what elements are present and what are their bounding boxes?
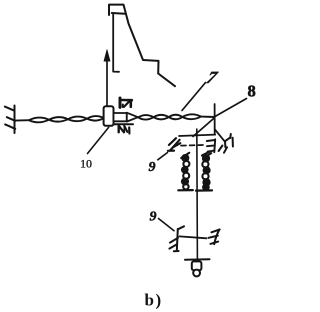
wall anchor (left) <box>5 106 15 134</box>
svg-text:8: 8 <box>248 81 256 100</box>
crossbar H1 <box>179 135 215 136</box>
bottom-left anchor <box>169 226 184 251</box>
socket fitting at bottom <box>185 259 210 276</box>
svg-text:b): b) <box>145 291 163 310</box>
rotated "2" mark below fitting <box>119 126 128 133</box>
hanger vertical V2 <box>196 129 199 259</box>
bar under fitting <box>114 123 133 125</box>
svg-text:10: 10 <box>80 157 92 171</box>
rope right segment (twisted) <box>138 114 214 119</box>
leader from 9 (upper) <box>158 153 168 160</box>
leader to label 7 <box>182 83 206 111</box>
svg-text:7: 7 <box>204 68 221 87</box>
strut D2 to upper-right anchor <box>215 129 225 141</box>
strut D1 <box>193 118 214 137</box>
leader from 9 (lower) <box>159 219 175 231</box>
component 10 (clamp box on rope) <box>104 106 114 126</box>
dashed tie rod <box>181 144 203 147</box>
arrow (up) <box>104 50 110 109</box>
bottom crossbar H2 <box>180 236 207 238</box>
upper-right anchor <box>219 134 233 153</box>
right coil spring <box>196 152 212 191</box>
rotated "3" mark above fitting <box>120 98 132 107</box>
junction vertical V1 <box>214 104 216 135</box>
left coil spring <box>178 153 193 191</box>
leader to label 8 <box>215 99 247 117</box>
leader from 10 to box <box>88 127 109 153</box>
anchor E (right of dashed tie) <box>207 139 215 152</box>
rotated anchor A (left of dashed tie) <box>168 138 180 151</box>
svg-text:9: 9 <box>149 160 156 175</box>
bottom-right anchor <box>209 230 220 245</box>
rope left segment (twisted) <box>15 116 105 122</box>
tall vertical link with foot <box>113 14 119 72</box>
cam profile (top stepped line) <box>109 5 175 87</box>
svg-text:9: 9 <box>150 209 157 224</box>
bullet / eye fitting right of box <box>114 113 139 122</box>
comma tick <box>128 128 130 134</box>
